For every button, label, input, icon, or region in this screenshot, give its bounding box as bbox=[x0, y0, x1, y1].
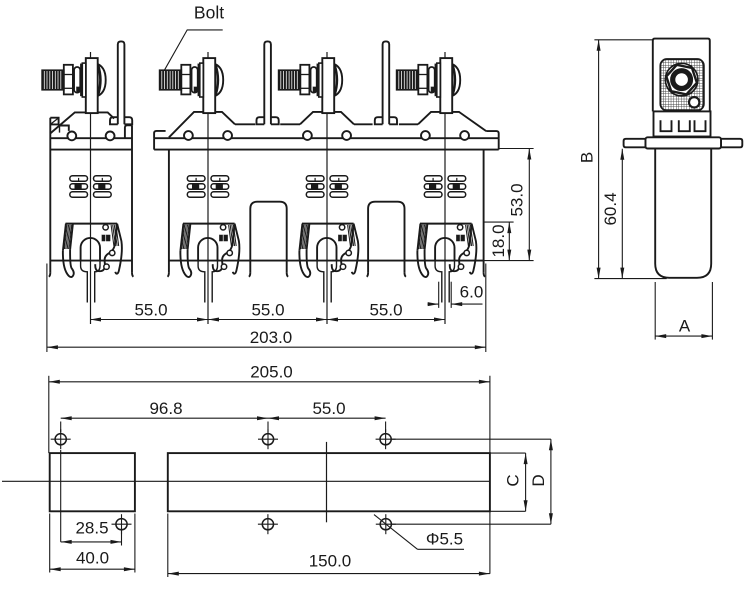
ext lines 203.0 bbox=[46, 264, 48, 353]
dim 55.0 bottom bbox=[268, 417, 386, 419]
svg-text:C: C bbox=[503, 474, 522, 486]
side view comb section bbox=[654, 111, 711, 136]
dim B bbox=[598, 40, 600, 279]
svg-text:53.0: 53.0 bbox=[507, 183, 526, 216]
pole 2 hump bbox=[169, 112, 235, 137]
mounting hole bottom-left bbox=[116, 519, 127, 530]
pole 1 body bbox=[50, 137, 132, 139]
ext lines C bbox=[490, 452, 526, 454]
bottom left plate bbox=[50, 453, 135, 511]
dim 150.0 bbox=[168, 573, 490, 575]
side view bolt end hex nut bbox=[665, 63, 698, 96]
dim 40.0 bbox=[50, 568, 135, 570]
dim 55.0 c bbox=[327, 319, 445, 321]
dim A bbox=[655, 335, 712, 337]
bottom view vertical centerline bbox=[326, 442, 328, 522]
pole 1 hump bbox=[60, 112, 115, 125]
svg-text:55.0: 55.0 bbox=[312, 399, 345, 418]
ext lines A bbox=[654, 282, 656, 340]
dim 53.0 bbox=[528, 149, 530, 261]
pole 1 bolt bbox=[96, 63, 106, 96]
pole 2 bar circles bbox=[184, 131, 193, 140]
ext lines 28.5 bbox=[60, 450, 62, 542]
ext line bar bottom right bbox=[499, 148, 534, 150]
rod 2 bbox=[264, 41, 271, 124]
ext line 205.0 left bbox=[48, 376, 50, 453]
svg-text:A: A bbox=[679, 317, 691, 336]
barrier between poles 3-4 bbox=[368, 202, 404, 273]
pole 2 fuse clip bbox=[183, 223, 235, 225]
pole 3 fuse clip bbox=[302, 223, 354, 225]
3-pole unit right end tab bbox=[486, 131, 499, 138]
dim 96.8 bbox=[61, 417, 268, 419]
svg-text:40.0: 40.0 bbox=[76, 549, 109, 568]
svg-text:55.0: 55.0 bbox=[369, 301, 402, 320]
dim 60.4 bbox=[621, 149, 623, 279]
pole 1 centerline bbox=[90, 52, 92, 324]
dim 205.0 bbox=[49, 381, 490, 383]
svg-text:205.0: 205.0 bbox=[250, 363, 293, 382]
dim 55.0 a bbox=[90, 319, 208, 321]
pole 1 left ear bbox=[50, 118, 58, 125]
mounting hole bottom-middle bbox=[262, 519, 273, 530]
bottom view horizontal centerline bbox=[2, 480, 490, 482]
svg-text:18.0: 18.0 bbox=[489, 224, 508, 257]
pole 3 hump bbox=[300, 112, 354, 124]
rod 3 bbox=[383, 41, 390, 124]
pole 1 vent slots bbox=[70, 176, 88, 182]
barrier between poles 2-3 bbox=[250, 202, 286, 273]
pole 3 vent slots bbox=[306, 176, 324, 182]
dim 18.0 bbox=[508, 222, 510, 261]
dim 28.5 bbox=[61, 541, 122, 543]
dim 203.0 bbox=[47, 346, 486, 348]
bottom long plate bbox=[168, 453, 490, 511]
ext line 150.0 left bbox=[167, 514, 169, 578]
pole 4 bolt bbox=[450, 63, 460, 96]
pole 4 hump bbox=[418, 112, 486, 131]
svg-text:150.0: 150.0 bbox=[309, 552, 352, 571]
dim C bbox=[525, 453, 527, 511]
mounting hole top-right bbox=[380, 434, 391, 445]
ext lines hole row bbox=[60, 422, 62, 433]
pole 2 centerline bbox=[207, 52, 209, 324]
ext lines D bbox=[391, 438, 551, 440]
pole 4 bar circles bbox=[421, 131, 430, 140]
side view lower body bbox=[655, 149, 711, 278]
svg-text:96.8: 96.8 bbox=[149, 399, 182, 418]
dim Φ5.5 leader bbox=[374, 515, 418, 550]
side view small rivet bbox=[689, 97, 699, 107]
mounting hole bottom-right bbox=[380, 519, 391, 530]
ext line B/60.4 bottom bbox=[594, 278, 666, 280]
side view head (textured) bbox=[660, 59, 703, 110]
svg-text:6.0: 6.0 bbox=[460, 283, 484, 302]
pole 4 vent slots bbox=[424, 176, 442, 182]
svg-text:55.0: 55.0 bbox=[251, 301, 284, 320]
ext line 205.0/150.0 right bbox=[489, 376, 491, 574]
pole 2 vent slots bbox=[187, 176, 205, 182]
pole 3 centerline bbox=[326, 52, 328, 324]
rod 1 bbox=[118, 41, 125, 124]
shelf segments bbox=[235, 123, 255, 125]
side view blade bbox=[653, 39, 710, 112]
mounting hole top-left bbox=[55, 434, 66, 445]
pole 1 fuse clip bbox=[66, 223, 118, 225]
svg-text:Φ5.5: Φ5.5 bbox=[426, 530, 463, 549]
svg-text:D: D bbox=[529, 474, 548, 486]
ext line body bottom right bbox=[484, 260, 534, 262]
side view flange bbox=[624, 139, 646, 148]
pole 3 bar circles bbox=[303, 131, 312, 140]
svg-text:203.0: 203.0 bbox=[250, 328, 293, 347]
svg-text:Bolt: Bolt bbox=[194, 3, 224, 23]
ext lines 6.0 bbox=[438, 282, 440, 308]
svg-text:55.0: 55.0 bbox=[134, 301, 167, 320]
dim 55.0 b bbox=[208, 319, 327, 321]
ext lines 40.0 bbox=[49, 514, 51, 573]
pole 4 fuse clip bbox=[420, 223, 472, 225]
3-pole unit bar bbox=[154, 137, 499, 139]
mounting hole top-middle bbox=[262, 434, 273, 445]
pole 4 centerline bbox=[444, 52, 446, 324]
ext line clip top right bbox=[484, 221, 514, 223]
svg-text:60.4: 60.4 bbox=[601, 192, 620, 225]
svg-text:28.5: 28.5 bbox=[75, 519, 108, 538]
Bolt leader line bbox=[164, 30, 222, 70]
svg-text:B: B bbox=[577, 152, 596, 163]
ext line B top bbox=[594, 39, 652, 41]
pole 3 bolt bbox=[332, 63, 342, 96]
pole 1 bar circles bbox=[67, 132, 76, 141]
3-pole unit left end tab bbox=[154, 131, 166, 138]
dim 6.0 bbox=[428, 303, 439, 305]
pole 1 right tab bbox=[125, 125, 132, 138]
pole 2 bolt bbox=[213, 63, 223, 96]
dim D bbox=[550, 439, 552, 524]
